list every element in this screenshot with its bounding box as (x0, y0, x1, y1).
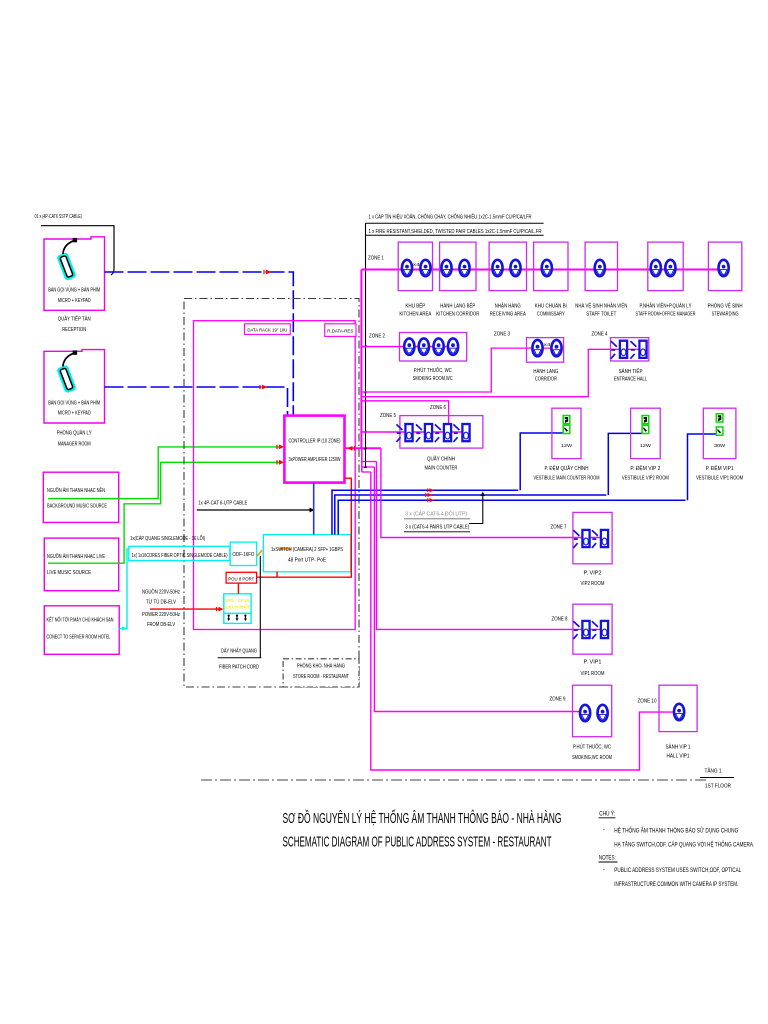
blue riser to vestibule main counter speaker (520, 433, 563, 490)
svg-text:MICRO + KEYPAD: MICRO + KEYPAD (58, 298, 91, 304)
svg-text:P.HÚT THUỐC, WC: P.HÚT THUỐC, WC (414, 367, 452, 374)
arrow green 1 (279, 445, 284, 450)
zone5/6 speaker box main counter (400, 416, 483, 449)
svg-text:QUẦY CHÍNH: QUẦY CHÍNH (427, 456, 455, 463)
svg-text:ZONE 3: ZONE 3 (494, 332, 510, 338)
svg-text:ZONE 4: ZONE 4 (592, 332, 608, 338)
network switch box (263, 535, 350, 572)
svg-text:DÂY NHẢY QUANG: DÂY NHẢY QUANG (221, 648, 257, 655)
svg-text:1x(CÁP QUANG SINGLEMODE - 16 L: 1x(CÁP QUANG SINGLEMODE - 16 LÕI) (130, 535, 205, 542)
svg-text:SẢNH TIẾP: SẢNH TIẾP (619, 368, 644, 375)
vestibule speaker box VESTIBULE MAIN COUNTER ROOM (552, 408, 581, 458)
svg-text:12W: 12W (640, 443, 652, 449)
ceiling speaker (434, 338, 444, 354)
ceiling speaker (542, 260, 552, 276)
zone 7 feeder (magenta) (381, 448, 607, 537)
svg-text:NGUỒN ÂM THANH NHẠC LIVE: NGUỒN ÂM THANH NHẠC LIVE (47, 553, 105, 560)
column speaker (green) (716, 414, 723, 435)
wire mic2 to controller (blue dashed) (105, 387, 288, 416)
zone10 speaker box hall vip1 (659, 685, 697, 731)
svg-text:KHU CHUẨN BỊ: KHU CHUẨN BỊ (535, 303, 567, 310)
ceiling speaker (419, 338, 429, 354)
svg-text:TỪ TỦ DB-ELV: TỪ TỦ DB-ELV (146, 598, 176, 605)
svg-text:SƠ ĐỒ NGUYÊN LÝ HỆ THỐNG ÂM TH: SƠ ĐỒ NGUYÊN LÝ HỆ THỐNG ÂM THANH THÔNG … (283, 809, 562, 827)
ceiling speaker (598, 705, 608, 721)
zone 5 wire (magenta) (361, 431, 466, 433)
svg-text:P. ĐỆM VIP1: P. ĐỆM VIP1 (706, 464, 734, 472)
zone1 speaker box RECEIVING AREA (489, 242, 526, 291)
wire controller to POU (red) (257, 478, 352, 577)
zone2 speaker box smoking room (400, 333, 467, 362)
svg-text:30W: 30W (714, 443, 726, 449)
svg-text:ENTRANCE HALL: ENTRANCE HALL (614, 377, 647, 383)
svg-text:48 Port UTP- PoE: 48 Port UTP- PoE (288, 557, 326, 563)
blue riser to vestibule vip1 speaker (688, 434, 717, 500)
trunk riser down stub (361, 448, 363, 472)
arrow green 2 (279, 460, 284, 465)
svg-text:KHU BẾP: KHU BẾP (405, 303, 426, 310)
wire switch to speaker trunk risers (blue) (332, 490, 518, 534)
zone1 speaker box STEWARDING (708, 242, 741, 291)
UPS box (224, 594, 251, 614)
ceiling speaker (532, 340, 542, 356)
svg-text:x4: x4 (544, 342, 551, 348)
live music source box (44, 538, 118, 591)
zone1 speaker box KITCHEN CORRIDOR (440, 242, 476, 291)
svg-text:MANAGER ROOM: MANAGER ROOM (58, 442, 91, 448)
svg-text:SMOKING ROOM,WC: SMOKING ROOM,WC (413, 376, 453, 382)
svg-text:INFRASTRUCTURE COMMON WITH CAM: INFRASTRUCTURE COMMON WITH CAMERA IP SYS… (614, 882, 738, 888)
wire background source to controller (green) (48, 447, 282, 499)
wall speaker (416, 424, 432, 442)
svg-text:VESTIBULE VIP2 ROOM: VESTIBULE VIP2 ROOM (622, 476, 669, 482)
svg-text:BÀN GỌI VÙNG + BÀN PHÍM: BÀN GỌI VÙNG + BÀN PHÍM (48, 287, 100, 294)
svg-text:ZONE 2: ZONE 2 (369, 334, 385, 340)
svg-text:HALL VIP1: HALL VIP1 (667, 754, 690, 760)
trunk riser up (magenta) (360, 270, 362, 449)
svg-text:RECEIVING AREA: RECEIVING AREA (490, 312, 527, 318)
zone 9 feeder (magenta) (374, 467, 586, 712)
microphone call station box 2 (manager room) (44, 350, 105, 423)
ceiling speaker (404, 338, 414, 354)
zone1 speaker box KITCHEN AREA (398, 242, 432, 291)
svg-text:PHÒNG KHO- NHÀ HÀNG: PHÒNG KHO- NHÀ HÀNG (297, 663, 345, 670)
ceiling speaker (719, 260, 729, 276)
zone 3 wire (magenta) (361, 348, 556, 392)
POU 8 PORT box (226, 572, 257, 583)
svg-text:UPS - 3 KVA: UPS - 3 KVA (225, 598, 250, 603)
svg-text:KẾT NỐI TỚI P.MÁY CHỦ KHÁCH SẠ: KẾT NỐI TỚI P.MÁY CHỦ KHÁCH SẠN (47, 617, 114, 624)
svg-text:1ST FLOOR: 1ST FLOOR (705, 784, 731, 790)
svg-text:P. ĐỆM VIP 2: P. ĐỆM VIP 2 (630, 464, 660, 472)
store room label box (283, 659, 359, 687)
wire controller output trunk (magenta) (345, 447, 381, 449)
svg-text:CHÚ Ý:: CHÚ Ý: (599, 811, 615, 818)
zone 4 wire (magenta) (361, 349, 640, 396)
wire controller to switch (blue) (313, 483, 315, 535)
svg-text:-: - (603, 828, 605, 834)
ceiling speaker (665, 260, 675, 276)
svg-text:NHÀ VỆ SINH NHÂN VIÊN: NHÀ VỆ SINH NHÂN VIÊN (575, 302, 627, 310)
fiber splice (orange) (257, 550, 262, 555)
svg-text:3 x (CAT6-4 PAIRS UTP CABLE): 3 x (CAT6-4 PAIRS UTP CABLE) (405, 525, 469, 531)
svg-text:STAFF ROOM+OFFICE MANAGER: STAFF ROOM+OFFICE MANAGER (636, 312, 696, 318)
zone3 speaker box corridor (527, 338, 564, 363)
svg-text:STEWARDING: STEWARDING (712, 312, 739, 318)
wire POU to UPS (red) (237, 583, 239, 594)
data rack label box (245, 324, 291, 335)
svg-text:HÀNH LANG: HÀNH LANG (533, 368, 558, 375)
wall speaker (435, 424, 451, 442)
fiber patch cord leader (259, 556, 261, 658)
svg-text:P.HÚT THUỐC, WC: P.HÚT THUỐC, WC (573, 744, 611, 751)
svg-text:VESTIBULE VIP1 ROOM: VESTIBULE VIP1 ROOM (696, 476, 743, 482)
svg-text:ZONE 6: ZONE 6 (430, 405, 446, 411)
UPS outlets (228, 615, 230, 617)
zone1 speaker box COMMISSARY (534, 242, 568, 291)
controller / amplifier U1 (284, 416, 344, 483)
arrow on mic1 wire (266, 270, 271, 275)
svg-text:STAFF TOILET: STAFF TOILET (586, 312, 616, 318)
svg-text:1x( 1x16CORES FIBER OPTIC SING: 1x( 1x16CORES FIBER OPTIC SINGLEMODE CAB… (132, 553, 228, 559)
svg-text:POWER 220V-50Hz: POWER 220V-50Hz (142, 612, 180, 618)
svg-text:FIBER PATCH CORD: FIBER PATCH CORD (219, 665, 259, 671)
microphone icon 1 (58, 238, 77, 279)
fiber cable label box (EN) (129, 546, 230, 560)
rack name label box R.DATA-RES (325, 324, 356, 337)
ceiling speaker (551, 340, 561, 356)
svg-text:MAIN COUNTER: MAIN COUNTER (425, 466, 458, 472)
wall speaker (630, 341, 646, 359)
svg-text:SCHEMATIC DIAGRAM OF PUBLIC AD: SCHEMATIC DIAGRAM OF PUBLIC ADDRESS SYST… (283, 835, 552, 851)
svg-text:LIVE MUSIC SOURCE: LIVE MUSIC SOURCE (47, 570, 91, 576)
wall speaker (573, 621, 589, 639)
svg-text:ODF-16FO: ODF-16FO (232, 552, 254, 558)
svg-text:VESTIBULE MAIN COUNTER ROOM: VESTIBULE MAIN COUNTER ROOM (534, 476, 600, 482)
svg-text:BACKGROUND MUSIC SOURCE: BACKGROUND MUSIC SOURCE (47, 504, 107, 510)
arrows on blue trunks (430, 488, 435, 492)
wall speaker (453, 424, 469, 442)
zone 1 wire (magenta) (361, 269, 723, 271)
ceiling speaker (580, 705, 590, 721)
ceiling speaker (595, 260, 605, 276)
zone 2 wire (magenta) (361, 346, 453, 348)
vestibule speaker box VESTIBULE VIP1 ROOM (703, 408, 736, 458)
ceiling speaker (402, 260, 412, 276)
leader to blue trunk (469, 493, 483, 524)
svg-text:MICRO + KEYPAD: MICRO + KEYPAD (58, 411, 91, 417)
svg-text:BÀN GỌI VÙNG + BÀN PHÍM: BÀN GỌI VÙNG + BÀN PHÍM (48, 400, 100, 407)
svg-text:ZONE 7: ZONE 7 (551, 525, 567, 531)
zone4 speaker box entrance hall (611, 338, 649, 361)
wire fiber to server (cyan) (119, 549, 129, 629)
svg-text:VIP1 ROOM: VIP1 ROOM (581, 671, 605, 677)
svg-text:VIP2 ROOM: VIP2 ROOM (581, 581, 605, 587)
svg-text:ZONE 9: ZONE 9 (550, 697, 566, 703)
ceiling speaker (492, 260, 502, 276)
room boundary (dash-dot) (184, 299, 359, 688)
column speaker (green) (642, 416, 649, 434)
svg-text:TẦNG 1: TẦNG 1 (705, 768, 722, 775)
ceiling speaker (441, 260, 451, 276)
svg-text:P. ĐỆM QUẦY CHÍNH: P. ĐỆM QUẦY CHÍNH (545, 464, 589, 472)
svg-text:3 x (CÁP CAT6-4 ĐÔI UTP): 3 x (CÁP CAT6-4 ĐÔI UTP) (405, 510, 467, 517)
zone1 speaker box STAFF ROOM+OFFICE MANAGER (648, 242, 683, 291)
column speaker (green) (563, 416, 570, 434)
svg-text:NGUỒN ÂM THANH NHẠC NỀN: NGUỒN ÂM THANH NHẠC NỀN (47, 487, 105, 494)
microphone icon 2 (58, 350, 77, 391)
wall speaker (573, 530, 589, 548)
zone8 speaker box VIP1 (573, 604, 612, 654)
ceiling speaker (510, 260, 520, 276)
svg-text:-: - (603, 868, 605, 874)
wall speaker (396, 424, 412, 442)
svg-text:NGUỒN 220V-50Hz: NGUỒN 220V-50Hz (142, 589, 180, 596)
ODF-16FO box (230, 542, 256, 565)
background music source box (43, 472, 118, 522)
wire mic1 to controller (blue dashed) (105, 272, 294, 416)
svg-text:CONTROLLER IP (10 ZONE): CONTROLLER IP (10 ZONE) (289, 439, 341, 445)
svg-text:COMMISSARY: COMMISSARY (537, 312, 566, 318)
fire resistant cable bus (black) (365, 223, 367, 468)
zone1 speaker box STAFF TOILET (585, 242, 617, 291)
svg-text:KITCHEN AREA: KITCHEN AREA (399, 312, 432, 318)
leader line to switch wire (197, 509, 311, 511)
svg-text:12W: 12W (561, 443, 573, 449)
svg-text:SẢNH VIP 1: SẢNH VIP 1 (666, 744, 691, 751)
svg-text:CORRIDOR: CORRIDOR (535, 377, 557, 383)
arrow controller output (348, 446, 353, 451)
svg-text:R.DATA-RES: R.DATA-RES (327, 328, 353, 334)
blue riser to vestibule vip2 speaker (608, 433, 642, 495)
svg-text:01 x (4P-CAT6 SSTP CABLE): 01 x (4P-CAT6 SSTP CABLE) (35, 214, 83, 220)
svg-text:ZONE 1: ZONE 1 (368, 256, 384, 262)
ceiling speaker (651, 260, 661, 276)
zone9 speaker box smoking wc (573, 685, 612, 737)
wall speaker (592, 530, 608, 548)
svg-text:POU 8 PORT: POU 8 PORT (228, 576, 254, 582)
svg-text:RECEPTION: RECEPTION (62, 327, 86, 333)
svg-text:NOTES:: NOTES: (599, 856, 616, 862)
svg-text:1 x CÁP TÍN HIỆU XOẮN, CHỐNG C: 1 x CÁP TÍN HIỆU XOẮN, CHỐNG CHÁY, CHỐNG… (369, 213, 532, 221)
wall speaker (611, 341, 627, 359)
svg-text:1xSWITCH (CAMERA) 2 SFP+ 1GBPS: 1xSWITCH (CAMERA) 2 SFP+ 1GBPS (271, 547, 343, 553)
microphone call station box 1 (reception) (44, 237, 105, 310)
svg-text:CONECT TO SERVER ROOM HOTEL: CONECT TO SERVER ROOM HOTEL (47, 635, 111, 641)
svg-text:PHÒNG VỆ SINH: PHÒNG VỆ SINH (708, 302, 743, 310)
wire power to UPS (red) (150, 608, 221, 610)
ceiling speaker (459, 260, 469, 276)
svg-text:HÀNH LANG BẾP: HÀNH LANG BẾP (440, 303, 476, 310)
svg-text:P. VIP2: P. VIP2 (584, 571, 602, 577)
svg-text:1x 4P-CAT 6-UTP CABLE: 1x 4P-CAT 6-UTP CABLE (198, 501, 247, 507)
ceiling speaker (674, 704, 684, 720)
svg-text:ZONE 8: ZONE 8 (552, 617, 568, 623)
wire mic1 cable leader (41, 226, 114, 269)
svg-text:ZONE 5: ZONE 5 (380, 413, 396, 419)
svg-text:STORE ROOM - RESTAURANT: STORE ROOM - RESTAURANT (293, 674, 350, 680)
svg-text:3xPOWER AMPLIFIER 1250W: 3xPOWER AMPLIFIER 1250W (289, 457, 341, 463)
wire switch to POU (red) (276, 572, 278, 577)
zone 6 wire (magenta) (361, 401, 448, 433)
wall speaker (592, 621, 608, 639)
svg-text:HỆ THỐNG ÂM THANH THÔNG BÁO SỬ: HỆ THỐNG ÂM THANH THÔNG BÁO SỬ DỤNG CHUN… (614, 826, 738, 834)
svg-text:QUẦY TIẾP TÂN: QUẦY TIẾP TÂN (58, 316, 91, 323)
svg-text:SMOKING,WC ROOM: SMOKING,WC ROOM (572, 755, 612, 761)
svg-text:P.NHÂN VIÊN+P.QUẢN LÝ: P.NHÂN VIÊN+P.QUẢN LÝ (640, 302, 693, 310)
floor boundary line (201, 779, 706, 781)
ceiling speaker (448, 338, 458, 354)
wire live source to controller (green) (48, 462, 282, 563)
zone7 speaker box VIP2 (573, 512, 612, 563)
svg-text:NHẬN HÀNG: NHẬN HÀNG (495, 303, 521, 310)
svg-text:x4: x4 (413, 262, 420, 268)
vestibule speaker box VESTIBULE VIP2 ROOM (631, 408, 661, 458)
data rack cabinet rectangle (194, 321, 356, 630)
svg-text:PUBLIC ADDRESS SYSTEM USES SWI: PUBLIC ADDRESS SYSTEM USES SWITCH,ODF, O… (614, 868, 742, 874)
ceiling speaker (420, 260, 430, 276)
svg-text:P. VIP1: P. VIP1 (584, 660, 602, 666)
svg-text:HẠ TẦNG SWITCH,ODF, CÁP QUANG: HẠ TẦNG SWITCH,ODF, CÁP QUANG VỚI HỆ THỐ… (614, 840, 754, 848)
svg-text:FROM DB-ELV: FROM DB-ELV (147, 622, 175, 628)
svg-text:1 x FIRE RESISTANT,SHIELDED, T: 1 x FIRE RESISTANT,SHIELDED, TWISTED PAI… (369, 229, 542, 235)
zone 10 feeder (magenta) (371, 472, 680, 770)
zone 8 feeder (magenta) (377, 462, 608, 630)
svg-text:ZONE 10: ZONE 10 (638, 699, 657, 705)
svg-text:DATA RACK 19" 10U: DATA RACK 19" 10U (247, 328, 287, 334)
svg-text:LƯU 30 PHÚT: LƯU 30 PHÚT (225, 604, 250, 610)
svg-text:PHÒNG QUẢN LÝ: PHÒNG QUẢN LÝ (57, 430, 92, 437)
svg-text:KITCHEN CORRIDOR: KITCHEN CORRIDOR (436, 312, 479, 318)
arrow on mic2 wire (262, 385, 267, 390)
connect to server room box (44, 606, 119, 655)
